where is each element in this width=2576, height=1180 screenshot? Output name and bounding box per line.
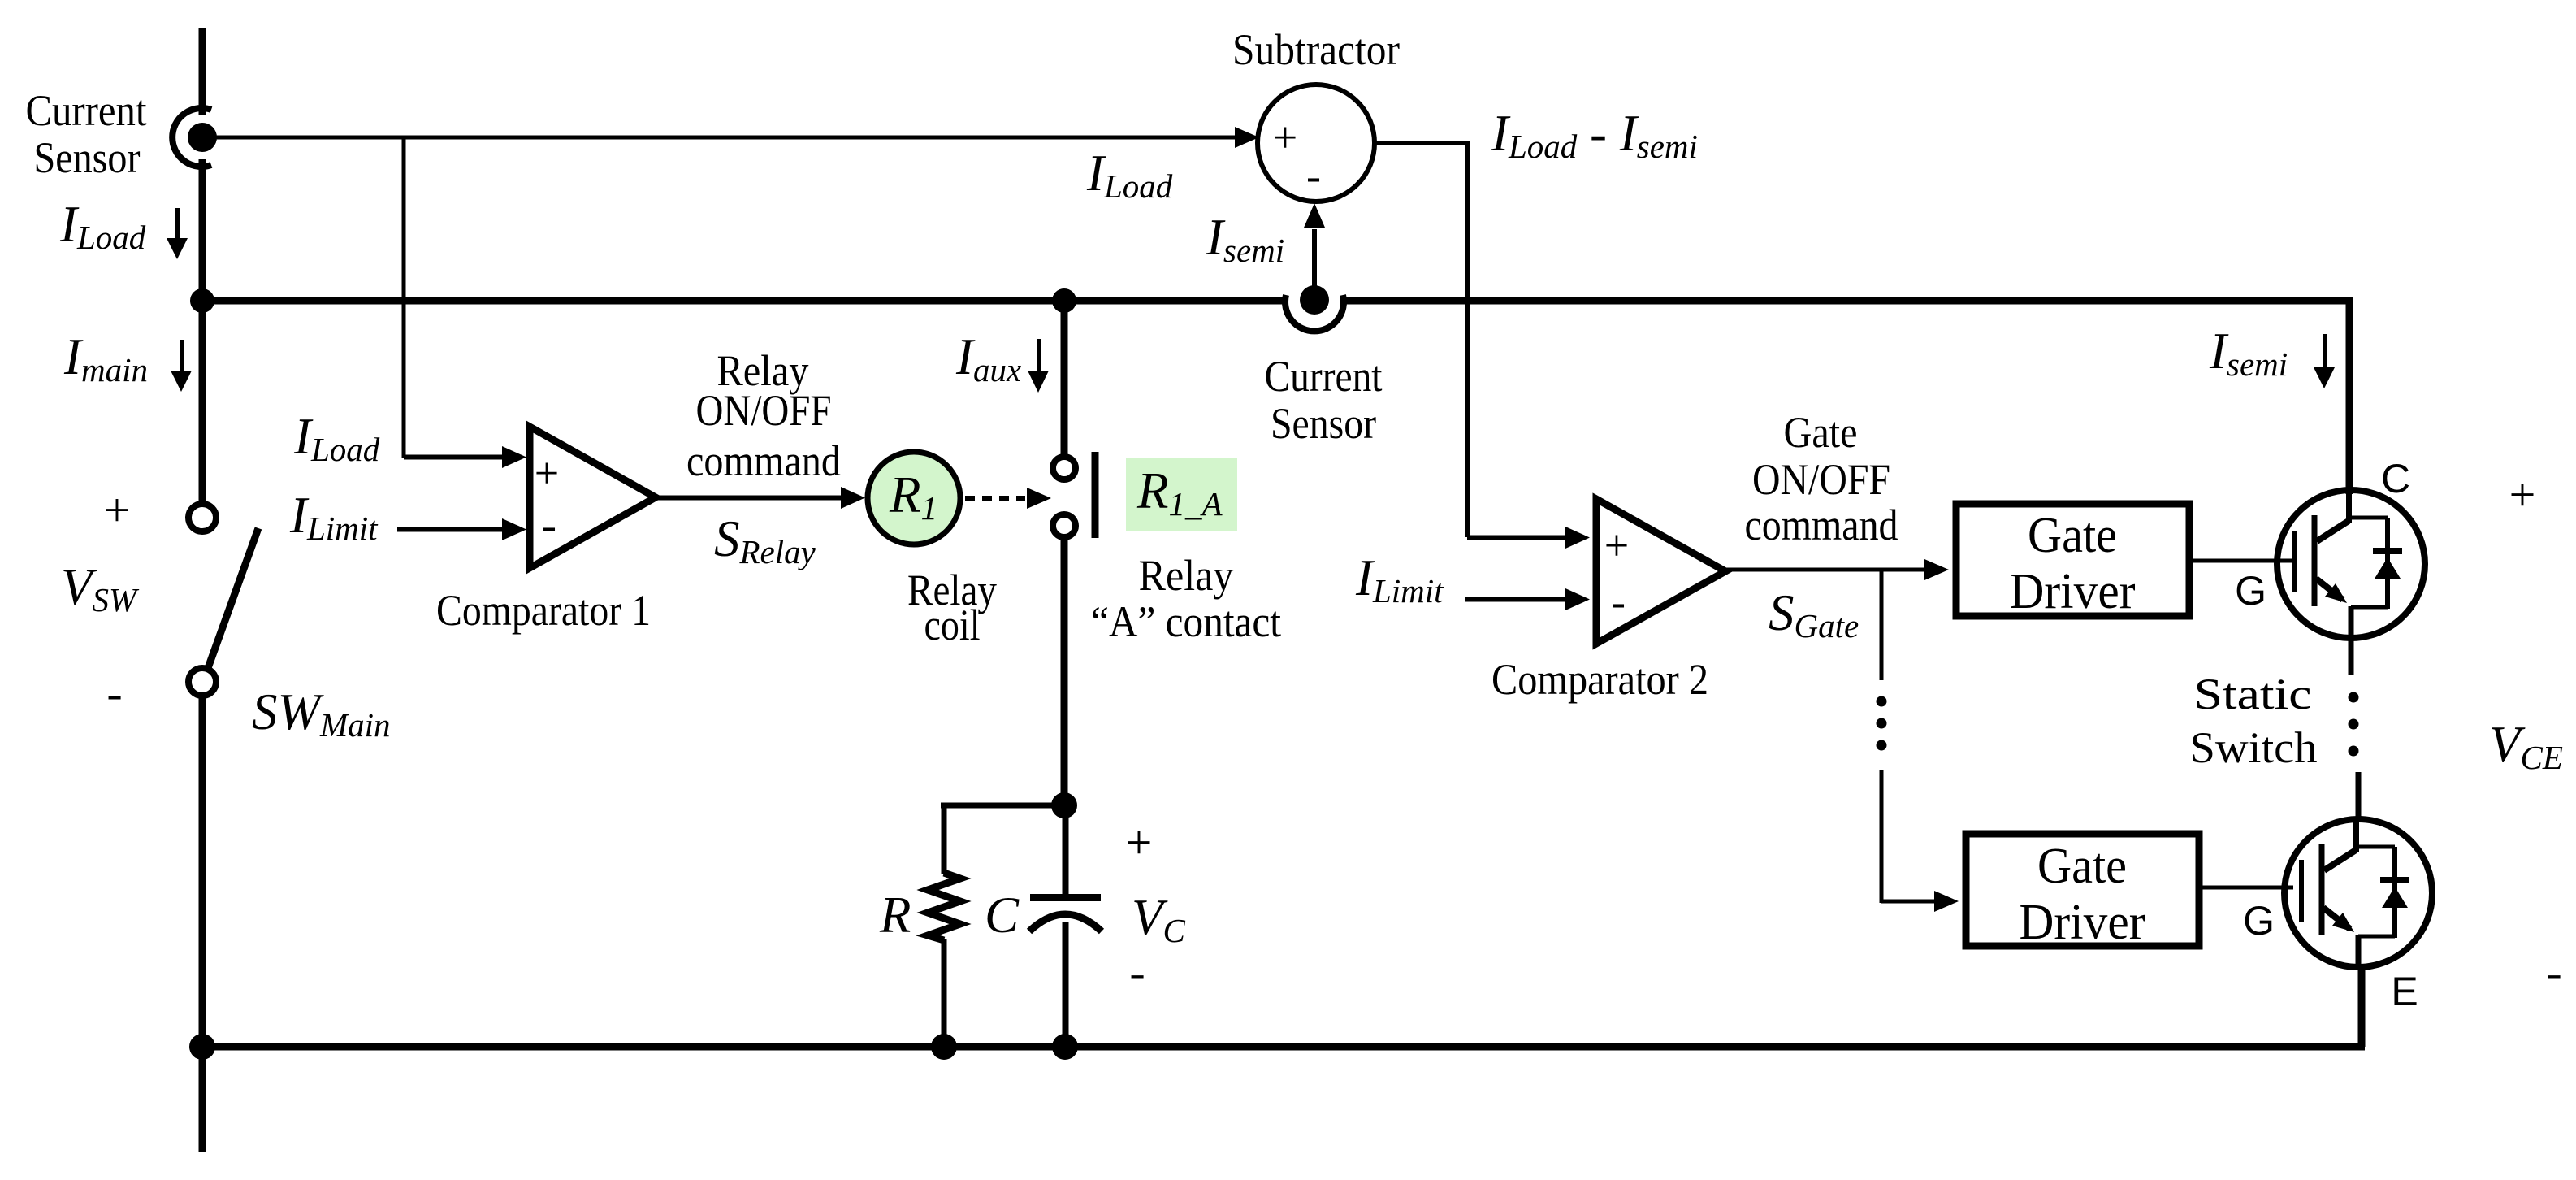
IGBT2 emitter arrowhead bbox=[2332, 913, 2354, 932]
IGBT2 collector stub above circle bbox=[2356, 772, 2362, 821]
svg-text:Sensor: Sensor bbox=[34, 133, 141, 182]
Isemi right down arrow bbox=[2323, 334, 2327, 368]
wire gate branch horizontal bbox=[1881, 900, 1936, 904]
wire relay branch lower bbox=[1061, 537, 1068, 805]
Imain arrowhead bbox=[171, 371, 192, 392]
switch SWMain top terminal bbox=[188, 504, 216, 531]
svg-text:“A” contact: “A” contact bbox=[1091, 597, 1281, 646]
wire gate driver1 to IGBT1 bbox=[2193, 559, 2293, 563]
wire RC top horizontal bbox=[941, 803, 1064, 809]
wire top bus left part bbox=[202, 297, 1286, 305]
IGBT1 body bar bbox=[2312, 515, 2318, 606]
node top bus / left rail junction bbox=[190, 288, 214, 313]
wire comparator1 + input bbox=[404, 455, 504, 460]
svg-text:+: + bbox=[104, 484, 131, 536]
capacitor C bottom plate arc bbox=[1029, 914, 1102, 931]
wire C lower lead bbox=[1063, 922, 1069, 1047]
wire C upper lead bbox=[1063, 805, 1069, 897]
current sensor CS2 arc bbox=[1285, 295, 1344, 331]
wire comparator2 + input bbox=[1467, 536, 1568, 540]
wire comparator2 output bbox=[1725, 568, 1924, 572]
svg-text:Driver: Driver bbox=[2010, 564, 2136, 619]
switch SWMain blade bbox=[208, 528, 258, 668]
relay contact top terminal bbox=[1053, 457, 1076, 479]
wire Isemi up arrow shaft bbox=[1312, 229, 1317, 286]
gate branch arrowhead bbox=[1934, 891, 1959, 912]
svg-text:Current: Current bbox=[1265, 352, 1383, 401]
op-amp comparator2 triangle bbox=[1596, 499, 1725, 644]
Imain down arrow bbox=[180, 340, 184, 374]
wire comparator1 + branch vertical bbox=[402, 137, 406, 458]
wire subtractor output horizontal bbox=[1375, 141, 1470, 145]
svg-text:Driver: Driver bbox=[2020, 895, 2145, 950]
IGBT1 collector stub bbox=[2346, 490, 2352, 523]
node bottom-left junction bbox=[189, 1034, 215, 1060]
svg-text:Comparator 2: Comparator 2 bbox=[1491, 655, 1708, 704]
Isemi up arrowhead bbox=[1304, 203, 1325, 228]
dashed actuation arrow R1 to contact bbox=[965, 496, 1025, 501]
IGBT2 diode cathode bar bbox=[2380, 877, 2409, 883]
ILoad top-left down arrow bbox=[175, 208, 180, 241]
svg-text:Sensor: Sensor bbox=[1271, 399, 1376, 448]
IGBT1 top link to diode bbox=[2349, 516, 2388, 520]
resistor R zigzag bbox=[928, 873, 960, 940]
wire relay branch upper bbox=[1061, 301, 1068, 454]
svg-text:Gate: Gate bbox=[2037, 839, 2127, 894]
comparator1 + input arrowhead bbox=[502, 446, 526, 468]
svg-text:Relay: Relay bbox=[1139, 551, 1234, 600]
IGBT2 collector stub bbox=[2353, 819, 2359, 852]
comparator1 - input arrowhead bbox=[502, 518, 526, 540]
current sensor CS1 arc bbox=[172, 108, 211, 167]
Isemi right arrowhead bbox=[2314, 367, 2335, 388]
IGBT2 top link to diode bbox=[2356, 845, 2395, 849]
svg-text:Comparator 1: Comparator 1 bbox=[436, 586, 651, 635]
IGBT2 bottom link to diode bbox=[2358, 935, 2395, 939]
IGBT2 emitter lead bbox=[2356, 935, 2362, 968]
switch SWMain bottom terminal bbox=[188, 668, 216, 696]
svg-text:-: - bbox=[1129, 946, 1145, 999]
node current sensor CS1 dot bbox=[188, 123, 217, 152]
gate driver 2 box bbox=[1966, 834, 2199, 946]
wire comparator2 - input bbox=[1465, 597, 1568, 602]
IGBT1 diode cathode bar bbox=[2373, 548, 2402, 554]
IGBT1 bottom link to diode bbox=[2351, 605, 2388, 610]
Iaux arrowhead bbox=[1028, 371, 1049, 393]
IGBT1 emitter lead bbox=[2349, 606, 2354, 675]
wire R upper lead bbox=[942, 805, 947, 874]
IGBT2 body bar bbox=[2319, 844, 2325, 935]
wire right rail emitter rise bbox=[2358, 965, 2366, 1047]
svg-text:Static: Static bbox=[2194, 670, 2312, 718]
IGBT2 circle bbox=[2284, 819, 2432, 967]
IGBT2 diode cathode lead bbox=[2392, 847, 2397, 938]
comparator1 output arrowhead bbox=[841, 487, 865, 509]
gate driver 1 box bbox=[1956, 504, 2189, 616]
capacitor C top plate bbox=[1030, 894, 1101, 901]
IGBT1 emitter diagonal bbox=[2316, 579, 2343, 600]
node current sensor CS2 dot bbox=[1300, 285, 1329, 315]
svg-text:-: - bbox=[106, 666, 122, 719]
svg-text:R: R bbox=[879, 887, 911, 944]
svg-text:G: G bbox=[2243, 898, 2275, 944]
wire left rail bottom stub bbox=[199, 1047, 206, 1152]
relay contact bottom terminal bbox=[1053, 514, 1076, 537]
svg-text:+: + bbox=[1604, 521, 1629, 570]
subtractor input arrowhead bbox=[1235, 127, 1259, 148]
svg-text:-: - bbox=[1306, 151, 1321, 200]
svg-text:command: command bbox=[1745, 501, 1898, 549]
comparator2 + input arrowhead bbox=[1565, 527, 1590, 549]
wire R lower lead bbox=[942, 939, 947, 1047]
wire gate driver2 to IGBT2 bbox=[2199, 886, 2293, 890]
Iaux down arrow bbox=[1037, 339, 1041, 373]
svg-text:Current: Current bbox=[26, 86, 147, 135]
wire bottom bus bbox=[202, 1043, 2365, 1051]
svg-text:C: C bbox=[985, 887, 1020, 944]
IGBT1 collector diagonal bbox=[2317, 521, 2349, 541]
IGBT2 gate bar bbox=[2299, 860, 2304, 922]
wire right rail collector drop bbox=[2346, 301, 2353, 494]
svg-text:ON/OFF: ON/OFF bbox=[696, 386, 832, 435]
svg-text:+: + bbox=[1273, 113, 1297, 162]
label R1A green box bbox=[1126, 458, 1237, 531]
wire top bus right part bbox=[1343, 297, 2353, 305]
IGBT1 diode triangle bbox=[2375, 557, 2401, 579]
wire gate branch vertical lower bbox=[1880, 770, 1884, 903]
IGBT1 emitter arrowhead bbox=[2325, 583, 2347, 603]
svg-text:ON/OFF: ON/OFF bbox=[1752, 455, 1890, 504]
comparator2 - input arrowhead bbox=[1565, 588, 1590, 610]
node gate branch dots bbox=[1877, 696, 1887, 707]
comparator2 output arrowhead bbox=[1924, 559, 1949, 580]
svg-text:-: - bbox=[1611, 577, 1626, 626]
node C bottom junction bbox=[1052, 1034, 1078, 1060]
IGBT1 diode cathode lead bbox=[2385, 518, 2390, 609]
relay coil R1 circle bbox=[868, 452, 960, 544]
wire subtractor output vertical bbox=[1465, 143, 1470, 537]
wire left rail mid segment bbox=[199, 159, 206, 501]
svg-text:Switch: Switch bbox=[2190, 723, 2318, 772]
svg-text:Gate: Gate bbox=[2028, 508, 2117, 563]
wire sensor tap horizontal bbox=[210, 136, 1243, 140]
node relay branch junction bbox=[1052, 288, 1076, 313]
relay contact bar bbox=[1092, 452, 1099, 538]
node R bottom junction bbox=[931, 1034, 957, 1060]
wire comparator1 - input bbox=[397, 527, 504, 532]
svg-text:-: - bbox=[542, 501, 556, 549]
dashed arrow arrowhead bbox=[1027, 488, 1051, 509]
IGBT1 circle bbox=[2277, 490, 2425, 638]
IGBT1 gate bar bbox=[2292, 531, 2297, 592]
ILoad top-left arrowhead bbox=[167, 238, 188, 259]
svg-text:-: - bbox=[2546, 946, 2561, 999]
subtractor circle bbox=[1258, 85, 1375, 202]
transistor IGBT1 bbox=[2277, 490, 2425, 675]
IGBT2 collector diagonal bbox=[2324, 850, 2356, 870]
svg-text:Subtractor: Subtractor bbox=[1232, 25, 1400, 74]
svg-text:C: C bbox=[2381, 456, 2410, 501]
svg-text:coil: coil bbox=[924, 601, 981, 649]
node RC top junction bbox=[1051, 792, 1077, 818]
wire left rail lower segment bbox=[199, 696, 206, 1047]
svg-text:Gate: Gate bbox=[1784, 408, 1858, 457]
wire gate branch vertical upper bbox=[1880, 570, 1884, 680]
svg-text:command: command bbox=[686, 436, 841, 485]
svg-text:+: + bbox=[1126, 816, 1153, 869]
wire left rail top segment bbox=[199, 28, 206, 115]
IGBT2 emitter diagonal bbox=[2323, 908, 2350, 929]
static switch dots bbox=[2349, 692, 2359, 703]
svg-text:E: E bbox=[2391, 969, 2418, 1014]
svg-text:G: G bbox=[2235, 568, 2266, 614]
svg-text:+: + bbox=[2509, 468, 2536, 521]
svg-text:+: + bbox=[535, 449, 559, 497]
IGBT2 diode triangle bbox=[2382, 887, 2408, 908]
wire comparator1 output bbox=[656, 496, 841, 501]
op-amp comparator1 triangle bbox=[530, 427, 656, 568]
transistor IGBT2 bbox=[2284, 772, 2432, 968]
